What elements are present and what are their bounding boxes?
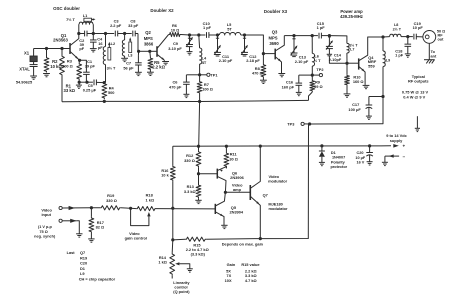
svg-text:L7: L7 — [350, 47, 354, 51]
ground — [319, 161, 325, 163]
svg-text:500: 500 — [108, 90, 115, 95]
resistor R8 — [262, 54, 264, 64]
wire — [294, 35, 312, 37]
svg-text:OSC doubler: OSC doubler — [53, 6, 80, 11]
node L3 top junction — [123, 32, 126, 35]
resistor R4 — [102, 83, 107, 100]
svg-text:2-18 pF: 2-18 pF — [246, 58, 260, 63]
resistor R2 — [46, 49, 48, 57]
svg-text:16 V: 16 V — [356, 161, 364, 165]
ground — [278, 73, 285, 75]
svg-text:TP2: TP2 — [316, 67, 324, 72]
svg-text:Last: Last — [67, 250, 76, 255]
resistor R1 — [61, 49, 63, 56]
svg-text:10 k: 10 k — [161, 174, 169, 178]
svg-text:1N4007: 1N4007 — [332, 156, 345, 160]
wire — [78, 82, 80, 85]
svg-text:2.2 pF: 2.2 pF — [110, 23, 122, 28]
node R11 top junction — [225, 145, 228, 148]
svg-text:R16: R16 — [161, 169, 168, 173]
ground — [88, 238, 94, 240]
svg-text:Doubler X3: Doubler X3 — [264, 9, 288, 14]
svg-text:X1: X1 — [24, 51, 30, 56]
svg-text:4T: 4T — [202, 60, 207, 65]
node Q6 base junction — [197, 172, 200, 175]
svg-text:+: + — [402, 144, 405, 149]
node D1 junction — [320, 144, 323, 147]
ground — [183, 93, 189, 95]
svg-text:protector: protector — [330, 165, 347, 169]
capacitor C18 — [407, 37, 409, 45]
svg-text:(1 V p-p: (1 V p-p — [38, 225, 53, 229]
svg-text:2N3906: 2N3906 — [230, 175, 244, 180]
svg-text:54.90625: 54.90625 — [16, 80, 33, 85]
svg-text:Q7: Q7 — [263, 193, 268, 198]
wire — [198, 102, 201, 147]
wire — [225, 191, 250, 193]
inductor L8 — [383, 36, 390, 38]
svg-text:2½ T: 2½ T — [393, 27, 402, 31]
node L6 top junction — [311, 34, 314, 37]
inductor L1 — [78, 24, 80, 33]
svg-text:33 pF: 33 pF — [128, 23, 139, 28]
capacitor C2 — [79, 33, 85, 35]
svg-text:4.7 kΩ: 4.7 kΩ — [245, 278, 257, 283]
svg-text:Doubler X2: Doubler X2 — [150, 8, 174, 13]
inductor L3 — [124, 34, 126, 41]
node R14 top junction — [171, 238, 174, 241]
node C12 junction — [243, 33, 246, 36]
potentiometer R18 — [136, 207, 156, 211]
crystal X1 — [33, 49, 35, 57]
svg-text:39 pF: 39 pF — [85, 64, 96, 69]
ground — [121, 57, 128, 59]
svg-text:10 pF: 10 pF — [413, 25, 424, 30]
svg-text:1 pF: 1 pF — [317, 25, 326, 30]
transistor Q7 MJE180 — [249, 185, 251, 200]
svg-text:559: 559 — [368, 63, 375, 68]
node Q1 emitter — [78, 59, 81, 62]
svg-text:1 kΩ: 1 kΩ — [146, 197, 155, 202]
svg-text:3½ T: 3½ T — [107, 66, 116, 71]
svg-text:3-10 pF: 3-10 pF — [168, 46, 182, 51]
svg-text:Depends on max. gain: Depends on max. gain — [222, 242, 264, 247]
capacitor C19 — [408, 36, 413, 38]
svg-text:2N3904: 2N3904 — [229, 209, 243, 214]
node C7 junction — [137, 50, 140, 53]
svg-text:0.25 μF: 0.25 μF — [83, 87, 97, 92]
svg-text:modulator: modulator — [268, 178, 288, 183]
wire — [156, 208, 215, 210]
capacitor C10 — [199, 34, 206, 36]
svg-text:10 Ω: 10 Ω — [171, 27, 180, 32]
node supply minus — [390, 155, 399, 157]
capacitor C8 — [125, 33, 132, 35]
svg-text:XTAL: XTAL — [19, 67, 30, 72]
svg-text:30 Ω: 30 Ω — [229, 156, 238, 161]
node Q4 collector junction — [381, 35, 384, 38]
node Q3 base junction — [262, 52, 265, 55]
ground — [147, 71, 154, 73]
node C17 junction — [381, 95, 384, 98]
wire — [62, 100, 309, 101]
node L1-C4 junction — [92, 32, 95, 35]
ground — [30, 75, 37, 77]
node L4 top junction — [197, 33, 200, 36]
wire — [139, 50, 150, 52]
inductor L4 — [198, 35, 201, 48]
capacitor C12 trimmer — [244, 35, 246, 52]
node Q7 emitter junction — [259, 237, 262, 240]
svg-text:1 pF: 1 pF — [203, 25, 212, 30]
node C13 junction — [292, 34, 295, 37]
node R4 bottom junction — [103, 100, 106, 103]
node C9 junction — [188, 33, 191, 36]
svg-text:2-10pF: 2-10pF — [329, 57, 342, 62]
node R7 bottom junction — [198, 100, 201, 103]
wire — [245, 35, 264, 54]
wire — [172, 146, 174, 165]
connector RF out — [423, 31, 436, 44]
svg-text:330 Ω: 330 Ω — [184, 158, 195, 163]
wire — [284, 35, 294, 37]
wire — [260, 124, 308, 239]
resistor R6 — [169, 32, 181, 36]
resistor R17 — [90, 208, 92, 217]
capacitor C5 — [87, 81, 93, 83]
svg-text:TP1: TP1 — [210, 72, 218, 77]
wire — [310, 97, 383, 125]
node C18 junction — [406, 35, 409, 38]
transistor Q2 MPS3866 — [150, 50, 157, 52]
wire — [137, 34, 140, 52]
wire — [34, 48, 70, 50]
wire — [206, 238, 260, 241]
node video amp out junction — [224, 191, 227, 194]
svg-text:82 Ω: 82 Ω — [96, 225, 105, 230]
resistor R10 — [346, 63, 348, 74]
svg-text:7½ T: 7½ T — [66, 17, 75, 22]
svg-text:3.3 kΩ: 3.3 kΩ — [184, 189, 196, 194]
node Q1 collector — [77, 32, 80, 35]
svg-text:100 μF: 100 μF — [348, 107, 361, 112]
svg-text:1 pF: 1 pF — [395, 53, 404, 58]
svg-text:0.4 W @ 9 V: 0.4 W @ 9 V — [403, 95, 425, 100]
resistor R3 — [78, 60, 80, 63]
capacitor C14 trimmer — [328, 36, 330, 47]
node R4 top junction — [103, 81, 106, 84]
node C1 bottom junction — [85, 81, 88, 84]
svg-text:Q2: Q2 — [145, 30, 151, 35]
svg-text:2.2 kΩ: 2.2 kΩ — [152, 65, 165, 70]
test point TP1 — [200, 74, 207, 76]
node R18 left junction — [129, 207, 132, 210]
svg-text:330 Ω: 330 Ω — [106, 198, 117, 203]
svg-text:439.25-MHz: 439.25-MHz — [340, 14, 363, 19]
wire — [329, 36, 347, 44]
capacitor C16 — [299, 74, 313, 76]
transistor Q3 MPS3690 — [263, 53, 275, 55]
svg-text:out: out — [437, 37, 444, 41]
node Q4 base junction — [345, 62, 348, 65]
ground — [76, 84, 82, 86]
svg-text:TP3: TP3 — [287, 122, 295, 127]
ground — [187, 51, 193, 53]
svg-text:RF outputs: RF outputs — [408, 79, 429, 84]
svg-text:(3.3 kΩ): (3.3 kΩ) — [191, 252, 206, 257]
svg-text:2-10 pF: 2-10 pF — [295, 59, 309, 64]
svg-text:Polarity: Polarity — [331, 160, 346, 164]
svg-text:MPS: MPS — [268, 35, 277, 40]
ground — [162, 61, 169, 63]
svg-text:Gain: Gain — [227, 262, 236, 267]
svg-text:3866: 3866 — [144, 41, 154, 46]
node R12 top junction — [197, 145, 200, 148]
svg-text:10X: 10X — [225, 278, 232, 283]
svg-text:470 pF: 470 pF — [169, 84, 182, 89]
svg-text:100 Ω: 100 Ω — [202, 87, 213, 92]
node R3 bottom junction — [78, 81, 81, 84]
node Q5 bias junction — [171, 207, 174, 210]
node C14 junction — [328, 34, 331, 37]
svg-text:MPS: MPS — [144, 36, 153, 41]
ground — [424, 59, 435, 61]
svg-text:supply: supply — [390, 138, 403, 143]
ground — [135, 71, 142, 73]
inductor L9 — [382, 37, 384, 51]
capacitor C7 — [137, 51, 139, 55]
ground — [366, 115, 372, 117]
wire — [428, 43, 430, 59]
capacitor C20 — [369, 146, 371, 153]
capacitor C15 — [312, 35, 318, 37]
node TP2 — [311, 74, 314, 77]
svg-text:470 Ω: 470 Ω — [252, 71, 263, 76]
capacitor C13 trimmer — [293, 36, 295, 53]
svg-text:3690: 3690 — [269, 41, 279, 46]
inductor L7 — [347, 43, 349, 53]
svg-text:2-10 pF: 2-10 pF — [219, 58, 233, 63]
inductor L6 — [311, 36, 313, 54]
svg-text:−: − — [402, 154, 405, 159]
svg-text:2N3563: 2N3563 — [53, 38, 68, 43]
ground — [90, 48, 97, 50]
inductor L2 — [105, 34, 107, 47]
capacitor C1 — [80, 60, 87, 64]
svg-text:33 kΩ: 33 kΩ — [64, 88, 76, 93]
transistor Q4 MRF559 — [347, 62, 359, 64]
node R17 junction — [90, 206, 93, 209]
ground — [195, 199, 201, 201]
ground — [367, 161, 373, 163]
ground — [405, 53, 411, 55]
svg-text:160 Ω: 160 Ω — [353, 79, 364, 84]
svg-text:modulator: modulator — [268, 206, 288, 211]
wire — [62, 220, 76, 222]
node TP3 — [308, 122, 311, 125]
node Q2 base junction — [148, 50, 151, 53]
capacitor C17 — [369, 96, 383, 98]
node supply plus — [393, 144, 399, 148]
resistor R11 — [225, 146, 227, 152]
ground — [363, 84, 370, 86]
svg-text:56 pF: 56 pF — [123, 65, 134, 70]
node C20 junction — [368, 144, 371, 147]
svg-text:pF: pF — [98, 45, 103, 50]
transistor Q1 2N3563 — [69, 43, 71, 54]
ground — [221, 224, 227, 226]
ground — [76, 233, 82, 235]
wire — [173, 145, 391, 147]
capacitor C3 — [106, 33, 115, 35]
svg-text:ant: ant — [431, 55, 437, 59]
wire — [62, 207, 91, 209]
node base Q1 junction — [45, 47, 48, 50]
svg-text:39 Ω: 39 Ω — [314, 84, 323, 89]
wire — [190, 34, 199, 36]
ground — [187, 268, 193, 270]
node L2 top junction — [104, 32, 107, 35]
connector video input — [59, 206, 62, 209]
node C11 junction — [216, 33, 219, 36]
resistor R19 — [100, 206, 121, 210]
transistor Q6 2N3906 — [199, 173, 218, 175]
svg-text:R15 value: R15 value — [241, 262, 260, 267]
svg-text:input: input — [41, 212, 51, 217]
resistor R7 — [199, 75, 201, 81]
svg-text:amp: amp — [233, 187, 242, 192]
svg-text:160 pF: 160 pF — [282, 85, 295, 90]
inductor L5 — [219, 33, 240, 35]
ground — [43, 73, 50, 75]
svg-text:To: To — [431, 50, 436, 54]
svg-text:1 kΩ: 1 kΩ — [158, 260, 167, 265]
svg-text:Q3: Q3 — [272, 30, 278, 35]
capacitor C4 — [92, 34, 94, 40]
svg-text:(Q point): (Q point) — [173, 289, 190, 294]
svg-text:75 Ω: 75 Ω — [39, 230, 47, 234]
resistor R9 — [311, 75, 313, 79]
capacitor C6 — [186, 74, 199, 76]
svg-text:5T: 5T — [227, 26, 232, 31]
svg-text:pF: pF — [79, 46, 84, 51]
resistor R16 — [170, 165, 175, 181]
resistor R13 — [198, 174, 200, 184]
svg-text:L9: L9 — [386, 58, 390, 62]
svg-text:C20: C20 — [357, 151, 364, 155]
resistor R12 — [198, 146, 200, 150]
wire — [93, 33, 105, 35]
ground — [416, 116, 418, 128]
svg-text:gain control: gain control — [125, 236, 147, 241]
ground — [344, 93, 351, 95]
capacitor C11 trimmer — [217, 35, 219, 52]
potentiometer R14 — [171, 240, 174, 253]
wire — [172, 208, 174, 240]
ground — [260, 79, 267, 81]
transistor Q5 2N3904 — [214, 204, 216, 214]
resistor R15 — [185, 237, 206, 241]
capacitor C9 trimmer — [189, 35, 191, 45]
ground — [382, 161, 388, 163]
diode D1 1N4007 — [321, 146, 323, 151]
svg-text:300 Ω: 300 Ω — [62, 63, 73, 68]
wire — [241, 34, 245, 36]
node L4 bottom junction — [198, 73, 201, 76]
svg-text:½ T: ½ T — [314, 58, 321, 63]
svg-text:CH = chip capacitor: CH = chip capacitor — [79, 277, 116, 282]
svg-text:D1: D1 — [331, 151, 336, 155]
resistor R5 — [149, 51, 152, 57]
svg-text:neg. synch): neg. synch) — [34, 235, 56, 239]
node Q7 collector junction — [259, 145, 262, 148]
ground — [296, 91, 302, 93]
svg-text:10 μF: 10 μF — [355, 156, 366, 160]
